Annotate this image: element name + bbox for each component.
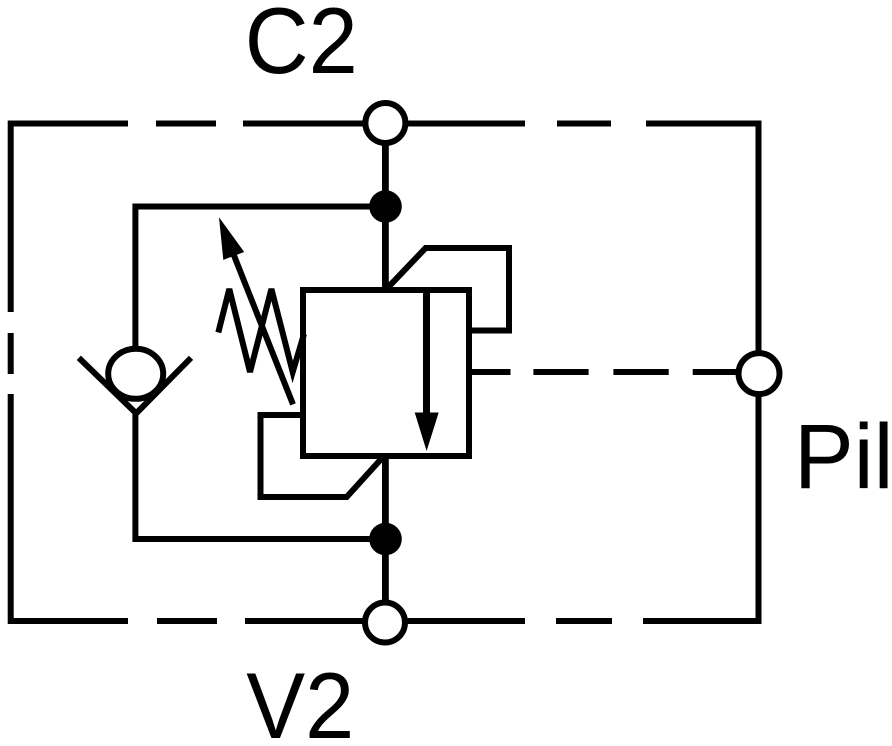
wire: boundary bottom edge (dashed), left of port V2 xyxy=(8,618,365,624)
port Pil (open circle) xyxy=(739,353,780,394)
wire: upper branch to check valve xyxy=(135,207,385,350)
wire: boundary top edge (dashed), right of port C2 xyxy=(405,121,761,127)
wire: drain passage hook, bottom-left of valve xyxy=(261,415,383,497)
adjustment arrow shaft across spring xyxy=(233,253,293,404)
svg-text:V2: V2 xyxy=(246,653,354,746)
wire: boundary bottom edge (dashed), right of port V2 xyxy=(405,618,761,624)
wire: boundary right edge, below port Pil xyxy=(756,394,762,624)
svg-text:Pil: Pil xyxy=(794,406,892,508)
wire: lower branch from check valve xyxy=(135,410,385,539)
spring (adjustable) on valve V1 left xyxy=(218,289,304,372)
wire: pilot passage hook, top-right of valve xyxy=(387,248,509,331)
wire: valve V1 bottom to V2 port xyxy=(382,454,389,603)
port C2 (open circle) xyxy=(365,103,405,143)
wire: C2 port down to valve V1 top xyxy=(382,143,389,292)
check valve CV1: ball xyxy=(108,349,163,399)
node: junction dot lower (V2 line / check-valve branch) xyxy=(369,523,402,556)
valve V1: internal flow arrow (head) xyxy=(415,413,439,452)
valve V1: internal flow arrow (shaft) xyxy=(423,290,430,416)
wire: boundary right edge, above port Pil xyxy=(756,121,762,353)
check valve CV1: seat (V) xyxy=(79,358,191,414)
valve V1: body square xyxy=(303,290,469,456)
wire: boundary left edge (dashed) xyxy=(8,121,14,624)
node: junction dot upper (C2 line / check-valve branch) xyxy=(369,190,402,223)
wire: pilot line from valve to Pil port (dashed) xyxy=(469,369,738,375)
svg-text:C2: C2 xyxy=(245,0,358,93)
wire: boundary top edge (dashed), left of port C2 xyxy=(8,121,365,127)
port V2 (open circle) xyxy=(365,603,405,643)
adjustment arrow head xyxy=(219,217,244,260)
